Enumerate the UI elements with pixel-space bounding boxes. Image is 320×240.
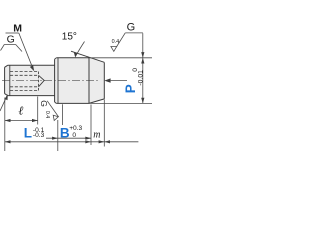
svg-text:0.4: 0.4 bbox=[44, 111, 50, 118]
15deg leader curve bbox=[76, 42, 85, 57]
G underline bbox=[125, 32, 143, 34]
dimension L left arrow bbox=[5, 140, 11, 143]
extension line: body bottom edge extended right bbox=[89, 102, 152, 104]
part fill: threaded small cylinder bbox=[5, 65, 55, 95]
svg-text:L: L bbox=[24, 126, 32, 141]
extension line shoulder (B left) bbox=[57, 120, 59, 151]
dimension B left arrow bbox=[52, 137, 58, 140]
chamfer ring line on small cylinder bbox=[9, 65, 11, 95]
body chamfer ring line bbox=[57, 58, 59, 104]
dimension L right arrow bbox=[99, 140, 105, 143]
dimension l line bbox=[5, 120, 38, 122]
body top edge bbox=[56, 57, 89, 59]
rotated G symbol check triangle bbox=[53, 115, 58, 120]
nose taper bottom bbox=[89, 99, 104, 104]
extension line: body top edge extended right bbox=[89, 57, 152, 59]
M leader arrow bbox=[30, 65, 34, 71]
15deg leader arrow bbox=[74, 53, 77, 58]
chamfer leader arrow bbox=[5, 94, 8, 100]
dimension l left arrow bbox=[5, 119, 11, 122]
extension line body right face bbox=[90, 105, 92, 146]
surface check mark top-right bbox=[111, 47, 117, 52]
svg-text:15°: 15° bbox=[62, 32, 77, 43]
extension line thread depth bbox=[37, 97, 39, 125]
svg-text:ℓ: ℓ bbox=[18, 103, 23, 117]
drill point bbox=[39, 75, 45, 87]
thread end dashed vertical bbox=[38, 72, 40, 91]
svg-text:G: G bbox=[127, 22, 136, 34]
chamfer leader bottom-left bbox=[0, 96, 7, 111]
small cylinder outline bbox=[5, 65, 55, 95]
nose right face bbox=[103, 62, 105, 99]
part fill: body with chamfered nose bbox=[55, 58, 105, 104]
dimension P line bbox=[142, 33, 144, 103]
svg-text:G: G bbox=[7, 33, 15, 45]
dimension B line with outside-left tail bbox=[46, 137, 91, 139]
body bottom edge bbox=[56, 102, 89, 104]
svg-text:m: m bbox=[93, 129, 100, 140]
G leader arrow onto top extension line bbox=[141, 52, 144, 58]
dimension m right outside arrow bbox=[104, 140, 110, 143]
svg-text:0.4: 0.4 bbox=[112, 39, 120, 45]
G check mark top-left bbox=[1, 45, 23, 52]
wire: centerline arrow at pilot face bbox=[104, 78, 110, 82]
svg-text:-0.01: -0.01 bbox=[138, 70, 145, 86]
nose 15deg taper top with extension line to upper left bbox=[71, 51, 104, 62]
dimension P bottom arrow (inside, pointing down) bbox=[141, 98, 144, 104]
M leader line bbox=[19, 33, 33, 68]
svg-text:-0.3: -0.3 bbox=[33, 132, 45, 139]
body corner chamfers bbox=[55, 58, 57, 104]
thread hidden lines (dashed) bbox=[10, 72, 39, 91]
dimension P top arrow (inside, pointing up) bbox=[141, 58, 144, 64]
dimension m tail bbox=[104, 141, 138, 143]
dimension B right arrow bbox=[85, 137, 91, 140]
body shoulder face bbox=[54, 59, 56, 102]
dimension l right arrow bbox=[32, 119, 38, 122]
dimension L line bbox=[5, 141, 105, 143]
body right face bbox=[88, 58, 90, 104]
svg-text:P: P bbox=[123, 84, 138, 93]
M underline bbox=[6, 32, 19, 34]
centerline bbox=[2, 80, 100, 82]
rotated G symbol pole line bbox=[62, 104, 64, 125]
extension line nose right face bbox=[103, 100, 105, 147]
extension line left face (for l and L dims) bbox=[4, 98, 6, 152]
rotated G symbol arm bbox=[47, 101, 58, 117]
dimension m left arrow bbox=[85, 140, 91, 143]
svg-text:0: 0 bbox=[72, 132, 76, 139]
